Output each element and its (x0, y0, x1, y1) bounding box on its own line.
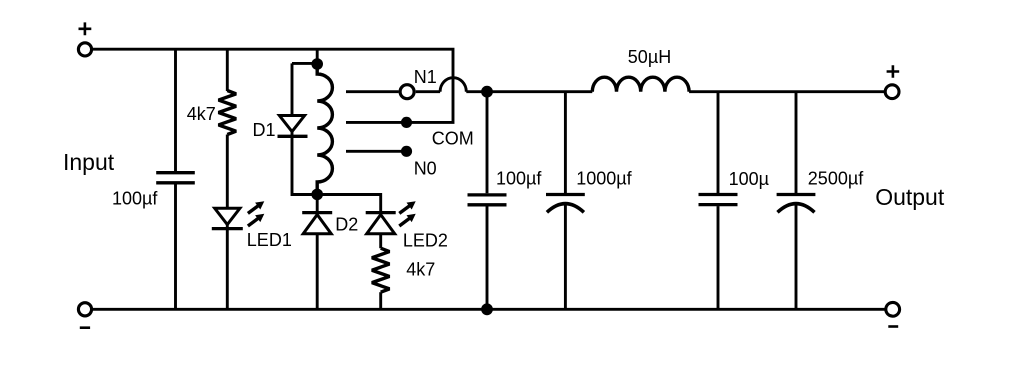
svg-text:N1: N1 (414, 67, 437, 87)
terminal input + (78, 43, 91, 56)
wire COM stub (346, 121, 407, 124)
wire D1 top link (292, 63, 317, 114)
capacitor 100u (699, 195, 738, 205)
svg-text:N0: N0 (414, 158, 437, 178)
LED2 diode up (366, 213, 396, 234)
capacitor C 100uf input (156, 173, 195, 183)
wire hop to junction (466, 90, 487, 93)
wire mid cap branch top (486, 92, 489, 194)
svg-text:D2: D2 (335, 214, 358, 234)
svg-text:COM: COM (432, 128, 474, 148)
wire top rail from input+ to COM vertical (93, 49, 453, 122)
terminal output - (886, 302, 900, 316)
contact N1 open circle (400, 85, 414, 99)
plus sign input (79, 22, 92, 35)
minus sign output (888, 325, 898, 328)
svg-text:4k7: 4k7 (406, 260, 435, 280)
LED1 arrows (248, 201, 264, 226)
wire N1 to hop (416, 90, 440, 93)
node junction right rail (481, 86, 493, 98)
node bottom rail junction (481, 303, 493, 315)
wire 2500uf branch top (795, 92, 798, 194)
wire input cap branch top (174, 49, 177, 171)
capacitor 100uf mid (468, 195, 507, 205)
wire 4k7 to LED1 (226, 135, 229, 209)
capacitor 1000uf polarized (546, 195, 585, 213)
svg-text:LED1: LED1 (247, 230, 292, 250)
svg-text:D1: D1 (253, 120, 276, 140)
wire inductor to output+ (689, 90, 884, 93)
relay coil (317, 64, 332, 194)
wire 1000uf branch top (564, 92, 567, 194)
wire LED1 to bottom rail (226, 223, 229, 310)
svg-text:4k7: 4k7 (187, 104, 216, 124)
contact N0 dot (401, 146, 412, 157)
wire 2500uf branch bottom (795, 204, 798, 309)
svg-text:Output: Output (875, 184, 945, 210)
contact COM dot (401, 117, 412, 128)
svg-text:100µ: 100µ (729, 169, 769, 189)
node coil bottom junction (311, 189, 323, 201)
node coil top junction (311, 58, 323, 70)
terminal output + (885, 85, 899, 99)
minus sign input (80, 326, 90, 329)
wire resistor R2 to bottom rail (379, 292, 382, 309)
resistor R2 4k7 (372, 248, 390, 292)
wire N1 stub (346, 90, 399, 93)
capacitor 2500uf polarized (777, 195, 816, 213)
inductor L1 50uH (592, 77, 689, 92)
resistor R1 4k7 (219, 91, 237, 135)
svg-text:1000µf: 1000µf (576, 169, 632, 189)
wire D1 bottom link (292, 130, 317, 195)
svg-text:100µf: 100µf (496, 169, 542, 189)
wire 100u branch bottom (717, 206, 720, 309)
plus sign output (887, 65, 900, 78)
wire 1000uf branch bottom (564, 204, 567, 309)
wire coil stub from top rail (316, 49, 319, 64)
wire right rail to inductor (487, 90, 592, 93)
wire bottom rail (93, 308, 885, 311)
wire input cap branch bottom (174, 184, 177, 309)
LED2 arrows (399, 201, 415, 226)
wire D2 to bottom rail (316, 234, 319, 309)
svg-text:100µf: 100µf (112, 188, 158, 208)
wire 4k7 branch top (226, 49, 229, 91)
diode D2 up (302, 213, 332, 234)
wire LED2 to resistor (379, 234, 382, 248)
svg-text:Input: Input (63, 149, 115, 175)
terminal input - (78, 303, 91, 316)
wire hop over COM vertical (440, 78, 466, 92)
wire coil bottom to D2 (316, 194, 319, 211)
wire 100u branch top (717, 92, 720, 194)
LED1 diode down (212, 208, 243, 228)
svg-text:2500µf: 2500µf (808, 169, 864, 189)
wire mid cap branch bottom (486, 206, 489, 309)
svg-text:50µH: 50µH (628, 47, 671, 67)
wire N0 stub (346, 150, 407, 153)
diode D1 down (278, 116, 308, 137)
svg-text:LED2: LED2 (403, 230, 448, 250)
wire junction line to LED2 branch (317, 195, 381, 212)
